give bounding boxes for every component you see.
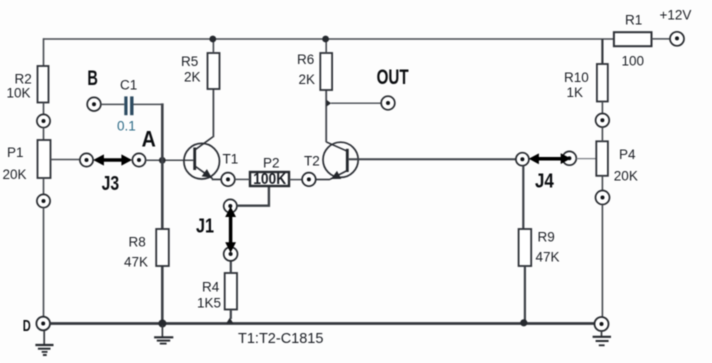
svg-text:20K: 20K [614, 169, 638, 184]
terminal J4 right [563, 151, 577, 165]
svg-text:10K: 10K [7, 86, 31, 101]
svg-text:+12V: +12V [660, 8, 692, 23]
wire B to C1 [101, 103, 125, 105]
svg-text:P4: P4 [619, 147, 636, 162]
potentiometer P1 [3, 140, 51, 182]
wire J4 left terminal down to R9 [522, 166, 524, 229]
wire P1 wiper to J3 [51, 159, 81, 161]
note T1:T2-C1815 [238, 331, 323, 347]
wire rail to R10 [601, 39, 603, 64]
svg-text:R2: R2 [15, 72, 32, 87]
wire T2 base to J4 [349, 158, 516, 160]
junction dot R8 at rail [158, 320, 166, 328]
resistor R5 [181, 53, 220, 89]
svg-text:J4: J4 [535, 171, 555, 193]
svg-text:47K: 47K [536, 250, 560, 265]
wire R9 to rail [524, 266, 526, 321]
svg-text:2K: 2K [184, 70, 201, 85]
junction dot R5 at rail [209, 36, 216, 43]
terminal T2 emitter [302, 173, 316, 187]
svg-text:47K: 47K [124, 255, 148, 270]
resistor R2 [7, 66, 49, 103]
wire R4 to rail [230, 310, 232, 320]
terminal P1 top pin [37, 114, 50, 127]
terminal J3 left [80, 153, 93, 166]
wire P4 bottom to ground terminal [601, 205, 603, 318]
terminal P1 bottom pin [37, 194, 50, 207]
svg-text:R6: R6 [297, 52, 314, 67]
wire R5 to T1 collector [212, 89, 214, 137]
terminal R10-P4 pin [596, 114, 610, 128]
resistor R6 [297, 52, 332, 90]
transistor T2 [304, 142, 358, 180]
svg-text:T1: T1 [223, 152, 239, 167]
jumper arrow J4 [529, 153, 571, 192]
node A junction dot [159, 157, 166, 164]
wire R10 to terminal [601, 102, 603, 114]
terminal J1 bottom [224, 247, 238, 261]
wire P4 to lower terminal [601, 176, 603, 191]
wire terminal to P1 [43, 128, 45, 140]
wire OUT tap to terminal [331, 102, 381, 104]
terminal T1 emitter [221, 173, 235, 187]
node D terminal [23, 317, 50, 335]
svg-text:R8: R8 [129, 235, 146, 250]
svg-text:J1: J1 [196, 216, 214, 238]
svg-text:B: B [87, 67, 98, 90]
potentiometer P2 [250, 156, 289, 189]
jumper arrow J1 [196, 207, 236, 253]
wire left branch vertical (rail to R2) [43, 38, 45, 66]
wire R4 to J1 terminal [230, 261, 232, 273]
wire P2 to T2 terminal [289, 179, 302, 181]
node A label [142, 127, 156, 152]
terminal +12V [660, 8, 692, 46]
transistor T1 [184, 137, 238, 180]
wire terminal to P4 [601, 127, 603, 141]
resistor R10 [564, 64, 608, 102]
svg-text:R1: R1 [625, 13, 642, 28]
wire T1 terminal to P2 [235, 178, 250, 180]
terminal J4 left [516, 153, 529, 166]
wire node A vertical line (C1 to ground rail) [161, 103, 164, 322]
wire R6 to rail [325, 39, 327, 53]
svg-text:R4: R4 [202, 280, 220, 295]
wire R5 to rail [212, 39, 214, 53]
wire P1 to lower terminal [43, 178, 45, 194]
svg-text:OUT: OUT [377, 66, 409, 89]
svg-text:0.1: 0.1 [117, 119, 136, 134]
svg-text:100: 100 [622, 54, 645, 69]
junction R4 at rail [226, 318, 234, 324]
svg-text:J3: J3 [102, 173, 120, 195]
svg-text:R9: R9 [538, 230, 555, 245]
junction dot R6 at rail [322, 36, 329, 43]
terminal J1 top [224, 199, 237, 212]
junction arrow OUT tap [326, 100, 331, 107]
svg-text:20K: 20K [3, 167, 27, 182]
svg-text:A: A [142, 127, 156, 152]
svg-text:1K5: 1K5 [197, 295, 221, 310]
resistor R1 [614, 13, 652, 69]
svg-text:R5: R5 [181, 54, 198, 69]
svg-text:100K: 100K [253, 171, 286, 188]
svg-text:C1: C1 [120, 78, 137, 93]
terminal P4 bottom pin [596, 191, 610, 205]
ground at node D [35, 330, 53, 355]
svg-text:P2: P2 [263, 156, 280, 171]
svg-text:1K: 1K [567, 85, 584, 100]
wire J3 to T1 base [146, 159, 194, 161]
wire C1 to node A line [134, 103, 164, 105]
wire J4 to P4 wiper [576, 158, 596, 160]
wire P2 wiper to J1 terminal [237, 186, 269, 207]
svg-text:R10: R10 [564, 70, 589, 85]
svg-text:T1:T2-C1815: T1:T2-C1815 [238, 331, 323, 347]
potentiometer P4 [596, 141, 638, 183]
svg-text:P1: P1 [7, 145, 24, 160]
resistor R9 [519, 229, 560, 266]
svg-text:D: D [23, 318, 31, 335]
ground right symbol [593, 331, 611, 345]
ground at R8 rail junction [154, 325, 173, 344]
wire P1 bottom to node D [43, 208, 45, 317]
svg-text:2K: 2K [299, 72, 316, 87]
wire ground rail (bottom) [50, 322, 595, 325]
resistor R4 [197, 273, 237, 310]
terminal OUT [377, 66, 409, 110]
wire R1 to +12V terminal [652, 38, 671, 40]
wire R6 to T2 collector [325, 90, 327, 142]
junction dot R9 at rail [520, 319, 527, 326]
wire top power rail [43, 38, 614, 40]
wire R2 to terminal [43, 103, 45, 115]
capacitor C1 [117, 78, 137, 134]
terminal B [87, 67, 101, 111]
terminal ground right [595, 317, 609, 331]
jumper arrow J3 [93, 154, 132, 195]
resistor R8 [124, 229, 169, 270]
svg-text:T2: T2 [304, 154, 320, 169]
terminal J3 right [132, 153, 145, 166]
